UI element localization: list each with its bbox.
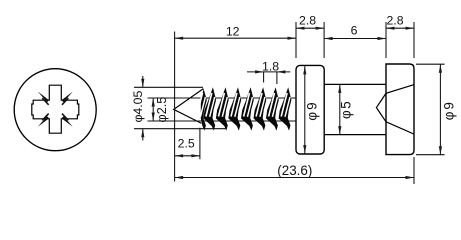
svg-text:6: 6	[351, 23, 358, 37]
svg-text:φ5: φ5	[339, 100, 354, 119]
svg-text:φ9: φ9	[442, 100, 457, 120]
svg-text:2.5: 2.5	[178, 136, 195, 150]
svg-text:12: 12	[226, 25, 240, 39]
svg-text:(23.6): (23.6)	[277, 163, 312, 178]
svg-text:φ9: φ9	[305, 100, 320, 120]
svg-text:2.8: 2.8	[386, 14, 403, 28]
svg-text:1.8: 1.8	[262, 59, 279, 73]
svg-text:φ2.5: φ2.5	[155, 97, 169, 123]
svg-text:φ4.05: φ4.05	[131, 90, 145, 122]
svg-text:2.8: 2.8	[299, 14, 316, 28]
